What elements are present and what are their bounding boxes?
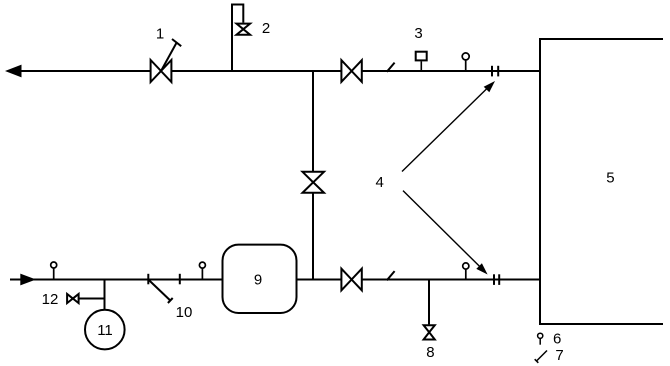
wire: bottom pipe [10, 279, 540, 281]
flow arrow out (top-left) [5, 65, 22, 78]
flange break (top) [492, 66, 498, 77]
svg-text:6: 6 [553, 330, 561, 347]
vessel 9 (rounded box) [223, 245, 297, 313]
sample circle (top pipe) [462, 53, 469, 71]
sample circle (bottom pipe, x465) [463, 263, 469, 280]
sample circle (bottom pipe, left) [51, 262, 57, 280]
drain branch wire [428, 280, 430, 325]
svg-text:9: 9 [254, 271, 262, 288]
weld slash (bottom pipe) [387, 271, 395, 280]
leader arrow to top flange [402, 81, 495, 172]
vent branch wire (gooseneck) [232, 5, 243, 72]
instrument square 3 [416, 52, 427, 71]
svg-text:2: 2 [262, 20, 270, 37]
svg-text:4: 4 [376, 174, 384, 191]
legend symbol 7 (drain slash) [535, 351, 547, 363]
svg-text:5: 5 [606, 170, 614, 187]
legend symbol 6 (sample circle) [538, 333, 543, 345]
vertical crossover wire [312, 71, 314, 280]
svg-text:11: 11 [97, 322, 113, 339]
crossover valve (vertical hourglass) [303, 172, 325, 193]
wire valve 12 to drop [79, 298, 105, 300]
svg-text:3: 3 [414, 25, 422, 42]
svg-text:12: 12 [42, 291, 59, 308]
tick mark (bottom pipe x180) [179, 274, 181, 285]
drain slash 10 [149, 280, 173, 303]
equipment 5 outline (open right) [540, 39, 663, 324]
svg-text:1: 1 [156, 26, 164, 43]
valve 8 (drain hourglass) [424, 325, 435, 339]
leader arrow to bottom flange [403, 191, 488, 275]
svg-text:8: 8 [426, 344, 434, 361]
instrument circle 11 [85, 310, 125, 350]
valve 2 (vent hourglass) [237, 24, 251, 35]
valve top-center (bowtie) [341, 60, 361, 82]
valve 1 (bowtie with stem) [151, 39, 182, 82]
weld slash (top pipe) [387, 63, 395, 72]
sample circle (bottom pipe, x202) [199, 262, 205, 279]
flow arrow in (bottom-left) [20, 274, 36, 286]
svg-text:7: 7 [555, 347, 563, 364]
instrument drop wire [104, 280, 106, 311]
flange break (bottom) [494, 274, 499, 285]
valve bottom-center (bowtie) [341, 269, 361, 291]
wire: top pipe [21, 70, 540, 72]
tick mark (bottom pipe x148) [147, 274, 149, 285]
svg-text:10: 10 [176, 304, 193, 321]
valve 12 (small bowtie) [67, 294, 79, 303]
